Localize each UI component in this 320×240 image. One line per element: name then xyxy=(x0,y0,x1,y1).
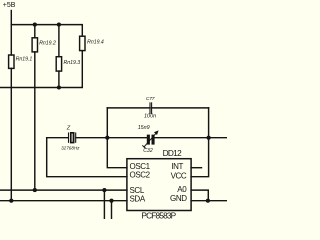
node +5V label xyxy=(3,2,16,9)
svg-text:SCL: SCL xyxy=(130,186,145,195)
junction VCC crystal xyxy=(207,136,211,140)
svg-text:VCC: VCC xyxy=(171,171,187,180)
wire SDA drop xyxy=(111,201,113,219)
wire R19.3 bottom xyxy=(58,71,60,87)
svg-text:Rп19.2: Rп19.2 xyxy=(39,41,56,47)
pin INT xyxy=(171,162,183,171)
wire SCL drop xyxy=(103,190,105,219)
resistor R19.2 xyxy=(32,38,37,52)
wire OSC2 loop xyxy=(47,138,127,177)
pin OSC1 xyxy=(130,162,151,171)
svg-text:Z: Z xyxy=(66,125,71,131)
svg-text:C32: C32 xyxy=(143,148,153,154)
wire +5V vertical top xyxy=(10,11,12,56)
junction OSC1 crystal xyxy=(105,136,109,140)
svg-text:Rп19.3: Rп19.3 xyxy=(64,60,81,66)
wire A0 jog xyxy=(191,190,208,201)
wire VCC riser xyxy=(191,108,209,177)
wire INT stub xyxy=(191,167,201,169)
pin SDA xyxy=(130,195,146,204)
crystal Z xyxy=(68,133,70,142)
junction GND A0 xyxy=(206,199,210,203)
wire SCL bus xyxy=(0,189,127,191)
wire R19.3 column xyxy=(58,25,60,57)
junction rail R19.2 xyxy=(33,23,37,27)
pin GND xyxy=(170,194,187,203)
pin VCC xyxy=(171,171,187,180)
junction SDA drop xyxy=(109,199,113,203)
svg-text:DD12: DD12 xyxy=(163,148,182,158)
junction rail R19.3 xyxy=(57,23,61,27)
resistor R19.4 xyxy=(80,36,85,50)
trimmer capacitor C32 xyxy=(147,135,150,145)
svg-text:100n: 100n xyxy=(144,114,156,120)
IC part number PCF8583P xyxy=(141,210,176,220)
svg-text:C77: C77 xyxy=(146,96,155,102)
wire crystal net xyxy=(47,137,68,139)
svg-text:Rп19.4: Rп19.4 xyxy=(87,40,104,46)
wire R19.4 bottom to left net xyxy=(0,51,82,88)
svg-text:SDA: SDA xyxy=(130,195,146,204)
wire trimmer right to edge xyxy=(155,137,227,139)
wire C77 top left xyxy=(107,107,150,109)
svg-text:Rп19.1: Rп19.1 xyxy=(16,57,33,63)
svg-text:15п9: 15п9 xyxy=(138,125,150,131)
svg-text:INT: INT xyxy=(171,162,183,171)
resistor R19.3 xyxy=(56,57,61,71)
IC DD12 box xyxy=(127,159,191,211)
junction SDA R19.1 xyxy=(9,199,13,203)
wire SDA bus xyxy=(0,200,127,202)
pin OSC2 xyxy=(130,171,151,180)
wire crystal to trimmer xyxy=(76,137,147,139)
junction SCL drop xyxy=(102,188,106,192)
pin SCL xyxy=(130,186,145,195)
wire +5V rail xyxy=(11,25,82,37)
resistor R19.1 xyxy=(9,55,14,68)
wire R19.1 bottom to SDA xyxy=(10,68,12,200)
svg-text:32768Hz: 32768Hz xyxy=(61,146,80,151)
svg-text:OSC2: OSC2 xyxy=(130,171,151,180)
svg-text:+5В: +5В xyxy=(3,2,16,9)
junction net87 R19.3 xyxy=(57,85,61,89)
svg-text:A0: A0 xyxy=(177,185,187,194)
svg-text:PCF8583P: PCF8583P xyxy=(141,210,176,219)
wire GND line xyxy=(191,200,227,202)
wire R19.2 bottom to SCL xyxy=(34,52,36,190)
wire C77 top right xyxy=(152,107,209,109)
pin A0 xyxy=(177,185,187,194)
wire OSC1 riser xyxy=(107,108,127,168)
svg-text:GND: GND xyxy=(170,194,187,203)
wire R19.2 column xyxy=(34,25,36,38)
capacitor C77 xyxy=(149,103,151,114)
junction SCL R19.2 xyxy=(33,188,37,192)
